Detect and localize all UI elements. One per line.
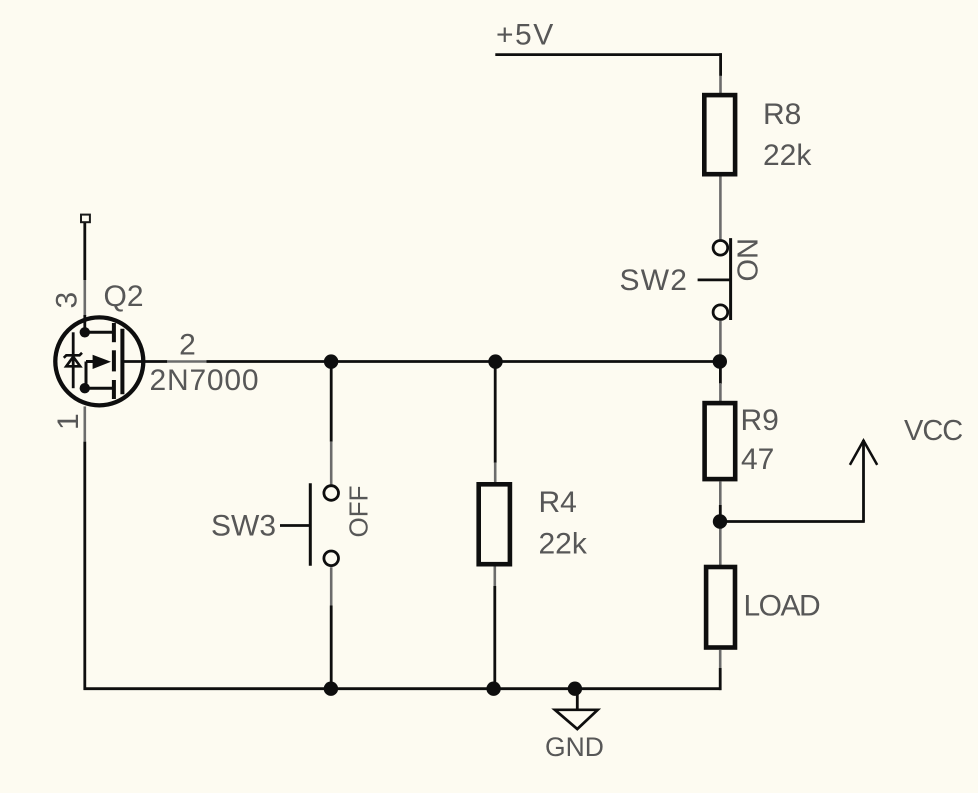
wire drain from square bbox=[83, 223, 86, 280]
wire SW3 top vertical bbox=[330, 362, 333, 442]
junction dot R4 bottom bbox=[486, 682, 500, 696]
body diode zener bar bbox=[64, 353, 82, 358]
pin R8 top stub bbox=[719, 76, 722, 94]
resistor R4 bbox=[479, 484, 510, 564]
junction dot SW3 top bbox=[324, 354, 338, 368]
junction dot GND tap bbox=[568, 682, 582, 696]
top horizontal to channel bbox=[85, 331, 112, 334]
svg-text:+5V: +5V bbox=[496, 19, 555, 52]
svg-text:47: 47 bbox=[741, 443, 774, 476]
transistor Q2 bbox=[55, 215, 167, 406]
junction dot SW2/R9 bbox=[713, 354, 727, 368]
switch SW3 bbox=[280, 483, 339, 566]
body diode triangle bbox=[66, 357, 80, 367]
pin 3 stub gray bbox=[84, 280, 87, 316]
wire +5V corner down to R8 bbox=[719, 53, 722, 76]
pin R9 bottom stub bbox=[719, 481, 722, 505]
wire SW3 bottom vertical bbox=[330, 606, 333, 691]
svg-text:2: 2 bbox=[179, 329, 196, 362]
channel segment top bbox=[112, 323, 116, 342]
drain internal wire bbox=[83, 315, 86, 332]
wire VCC horizontal bbox=[720, 520, 865, 523]
pin LOAD bottom stub bbox=[719, 650, 722, 668]
junction dot VCC tap bbox=[713, 514, 727, 528]
unconnected end square bbox=[81, 215, 90, 223]
wire R4 bottom vertical bbox=[493, 586, 496, 690]
pin R4 bottom stub gray bbox=[493, 567, 496, 587]
internal junction dot bottom bbox=[80, 383, 90, 393]
svg-text:R4: R4 bbox=[539, 486, 577, 519]
svg-text:SW2: SW2 bbox=[620, 264, 689, 297]
pin SW2 bottom stub bbox=[719, 321, 722, 357]
body circle bbox=[55, 317, 143, 405]
svg-text:LOAD: LOAD bbox=[744, 590, 821, 623]
svg-text:22k: 22k bbox=[539, 528, 588, 561]
resistor R9 bbox=[705, 403, 736, 479]
gate lead inside bbox=[124, 360, 167, 363]
svg-text:VCC: VCC bbox=[904, 415, 962, 447]
svg-text:OFF: OFF bbox=[344, 486, 374, 538]
junction dot SW3 bottom bbox=[324, 682, 338, 696]
junction dot R4 top bbox=[488, 354, 502, 368]
pin R9 top stub bbox=[719, 383, 722, 401]
svg-text:R8: R8 bbox=[763, 98, 801, 131]
svg-text:22k: 22k bbox=[763, 139, 812, 172]
pin R4 top stub gray bbox=[494, 463, 497, 483]
wire SW2 to junction bbox=[719, 355, 722, 384]
wire +5V horizontal rail bbox=[495, 53, 722, 56]
svg-text:ON: ON bbox=[733, 238, 765, 282]
bottom horizontal to channel bbox=[85, 387, 112, 390]
svg-text:Q2: Q2 bbox=[104, 280, 144, 313]
channel segment middle bbox=[112, 350, 116, 371]
wire gate rail to SW2 column bbox=[207, 360, 722, 363]
ground symbol bbox=[555, 710, 598, 729]
source internal L vertical bbox=[85, 362, 88, 389]
svg-text:SW3: SW3 bbox=[211, 509, 276, 542]
svg-text:1: 1 bbox=[52, 413, 85, 430]
wire GND stub bbox=[576, 689, 579, 710]
wire R9 to VCC junction bbox=[719, 505, 722, 529]
wire source down to bottom rail bbox=[83, 442, 86, 690]
svg-text:3: 3 bbox=[50, 292, 83, 309]
resistor R8 bbox=[704, 95, 735, 174]
pin SW3 top stub gray bbox=[330, 442, 333, 485]
gate bar bbox=[120, 329, 124, 395]
pin R8 bottom to SW2 top (gray pins) bbox=[719, 177, 722, 240]
svg-text:R9: R9 bbox=[741, 404, 779, 437]
VCC arrow head bbox=[850, 441, 877, 465]
wire LOAD bottom corner bbox=[719, 668, 722, 690]
body line bbox=[72, 332, 75, 388]
channel segment bottom bbox=[112, 380, 116, 399]
svg-text:2N7000: 2N7000 bbox=[150, 364, 260, 397]
resistor LOAD bbox=[706, 567, 735, 648]
svg-text:GND: GND bbox=[545, 732, 604, 762]
internal junction dot top bbox=[80, 327, 90, 337]
pin Q2 source stub gray bbox=[84, 406, 87, 441]
source internal L horizontal bbox=[86, 360, 94, 363]
switch SW2 bbox=[698, 238, 731, 320]
wire VCC vertical bbox=[862, 440, 865, 522]
wire R4 top vertical bbox=[494, 362, 497, 463]
pin SW3 bottom stub gray bbox=[330, 567, 333, 605]
pin Q2 gate stub gray bbox=[167, 360, 206, 363]
wire bottom rail bbox=[84, 687, 722, 690]
arrow bbox=[93, 355, 111, 369]
pin LOAD top stub bbox=[719, 528, 722, 565]
